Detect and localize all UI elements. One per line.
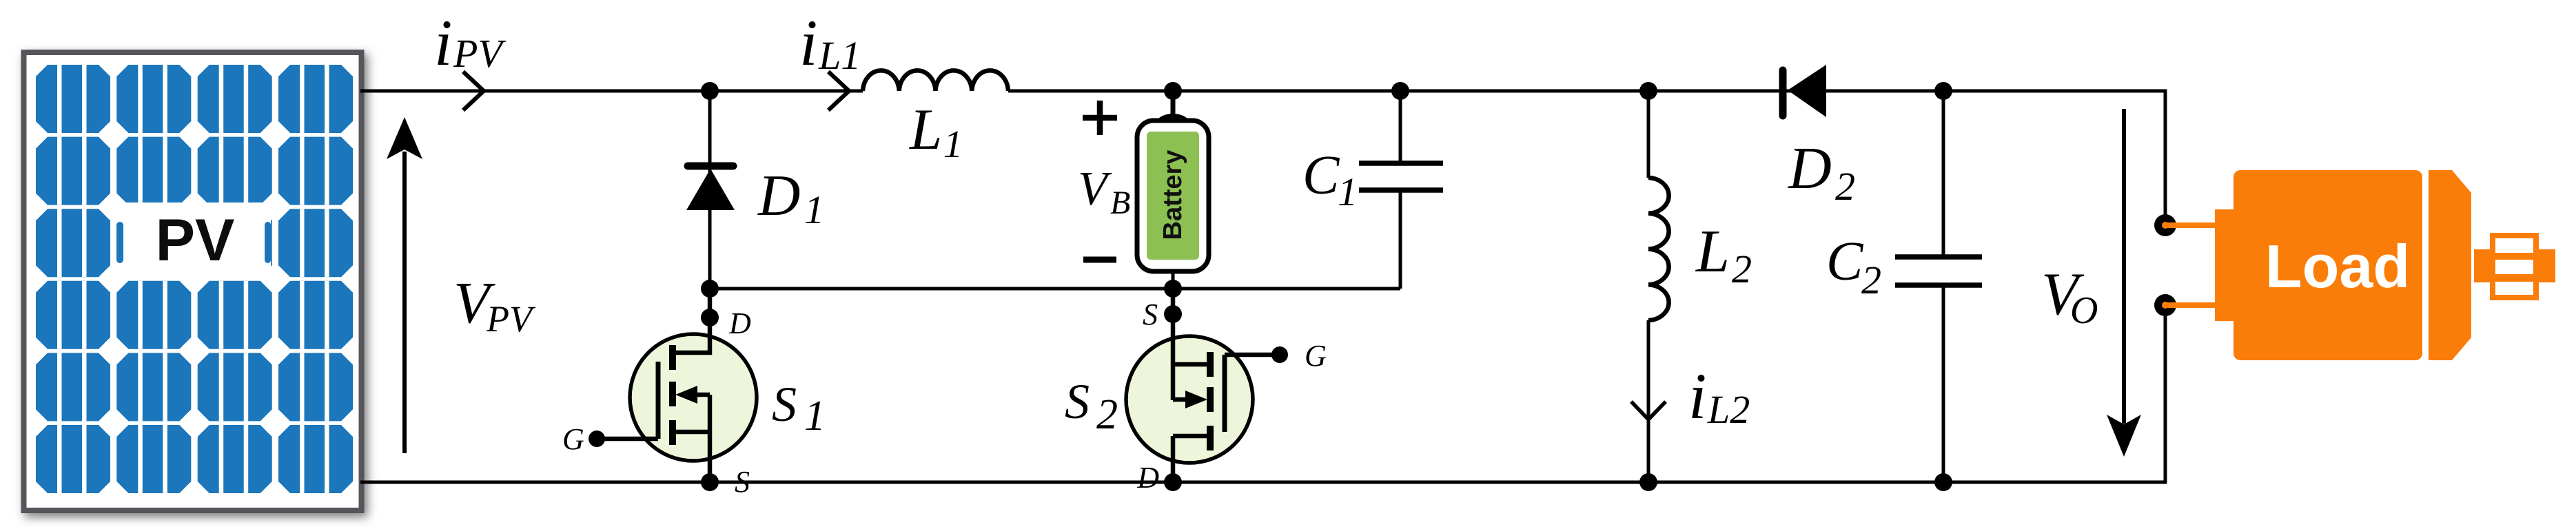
S1 body arrow xyxy=(693,393,710,397)
S2 gate terminal dot xyxy=(1271,346,1288,363)
svg-text:D: D xyxy=(1788,134,1832,201)
S1 gate terminal dot xyxy=(589,431,605,447)
battery minus sign xyxy=(1083,257,1116,263)
svg-text:Battery: Battery xyxy=(1158,150,1187,240)
S2 body circle xyxy=(1126,336,1253,463)
S2 drain lead xyxy=(1171,436,1176,482)
svg-text:2: 2 xyxy=(1732,247,1752,291)
svg-text:O: O xyxy=(2070,289,2098,332)
label C1 xyxy=(1302,145,1358,214)
wire: PV- to S1 source node (bottom rail) xyxy=(360,481,710,484)
junction node C1 top xyxy=(1391,82,1409,100)
wire: battery+ node to battery cap xyxy=(1171,91,1176,124)
wire: upper terminal to load tab (orange) xyxy=(2165,222,2216,228)
arrow VO xyxy=(2107,109,2141,457)
S1 body circle xyxy=(630,334,757,461)
wire: C2 bottom node to load lower terminal (bottom rail) xyxy=(1943,305,2165,482)
S1 gate bar xyxy=(656,362,661,439)
S1 gate lead xyxy=(597,437,658,442)
S1 drain lead xyxy=(674,289,710,353)
svg-text:D: D xyxy=(757,163,800,228)
diode D2 xyxy=(1783,65,1826,117)
transistor S1 (N-MOSFET) xyxy=(589,289,757,482)
svg-text:V: V xyxy=(1078,163,1112,216)
load motor end cap xyxy=(2429,170,2471,360)
label VO xyxy=(2041,261,2098,332)
junction node S1 source xyxy=(701,473,719,491)
wire: L2 top node to D2 cathode xyxy=(1648,90,1783,93)
svg-text:2: 2 xyxy=(1835,164,1855,209)
label D1 xyxy=(757,163,824,232)
svg-text:G: G xyxy=(562,422,584,456)
wire: L1 right end to battery+ node xyxy=(1008,90,1173,93)
wire: C1 top node to L2 top node xyxy=(1400,90,1648,93)
capacitor C2 xyxy=(1895,91,1982,482)
svg-text:D: D xyxy=(1136,461,1159,495)
svg-text:2: 2 xyxy=(1096,391,1118,438)
label iL1 xyxy=(799,6,861,79)
wire: C2 top node to load upper terminal xyxy=(1943,91,2165,225)
wire: D1 anode node to battery- node (mid rail) xyxy=(710,287,1173,291)
wire: D2 anode to C2 top node xyxy=(1783,90,1943,93)
S2 source channel bar xyxy=(1207,352,1214,377)
label D2 xyxy=(1788,134,1855,209)
wire: S2 drain node to L2 bottom node (bottom rail) xyxy=(1173,481,1648,484)
svg-text:G: G xyxy=(1305,339,1327,373)
wire: battery- to mid rail node xyxy=(1172,271,1175,289)
current arrow iL1 xyxy=(828,72,849,110)
wire: PV+ to node A (top of D1) xyxy=(360,90,710,93)
svg-text:2: 2 xyxy=(1861,258,1881,302)
junction node L2 top xyxy=(1639,82,1657,100)
battery top cap xyxy=(1155,114,1191,137)
S2 body arrow xyxy=(1173,397,1187,402)
arrow VPV xyxy=(387,117,422,453)
load (motor) xyxy=(2154,170,2555,360)
junction node S2 drain xyxy=(1164,473,1182,491)
S1 source channel bar xyxy=(669,420,676,445)
S2 source terminal dot xyxy=(1164,305,1182,323)
junction node C2 top xyxy=(1934,82,1952,100)
diode D1 xyxy=(686,166,735,210)
battery plus sign xyxy=(1083,101,1117,135)
label C2 xyxy=(1826,231,1881,302)
svg-text:PV: PV xyxy=(486,298,536,340)
S1 source lead xyxy=(708,395,713,482)
svg-text:i: i xyxy=(434,6,452,79)
svg-text:1: 1 xyxy=(804,187,824,232)
svg-text:PV: PV xyxy=(156,207,235,273)
svg-text:PV: PV xyxy=(453,31,507,76)
label L2 xyxy=(1695,218,1752,291)
S1 drain terminal dot xyxy=(701,309,719,326)
svg-text:1: 1 xyxy=(1338,169,1358,214)
load upper terminal node xyxy=(2154,214,2176,236)
svg-text:i: i xyxy=(1688,360,1706,433)
wire: battery+ node to C1 top node xyxy=(1173,90,1400,93)
svg-text:C: C xyxy=(1826,231,1864,292)
capacitor C1 xyxy=(1359,91,1443,289)
S2 gate bar xyxy=(1223,355,1227,432)
wire: node A to L1 left end xyxy=(710,90,863,93)
svg-text:1: 1 xyxy=(804,393,826,439)
transistor S2 (N-MOSFET) xyxy=(1126,289,1288,482)
inductor L2 xyxy=(1648,91,1669,482)
label S2 xyxy=(1065,374,1118,438)
PV panel xyxy=(24,52,362,510)
svg-text:L2: L2 xyxy=(1707,387,1750,432)
label iL2 xyxy=(1688,360,1750,433)
load motor body xyxy=(2233,170,2422,360)
svg-text:C: C xyxy=(1302,145,1340,206)
S1 drain channel bar xyxy=(669,345,676,370)
inductor L1 xyxy=(863,70,1008,91)
label iPV xyxy=(434,6,507,79)
svg-text:L: L xyxy=(909,97,942,162)
wire: lower terminal to load tab (orange) xyxy=(2165,302,2216,308)
S1 body channel bar xyxy=(669,382,676,406)
load lower terminal node xyxy=(2154,294,2176,316)
current arrow iPV xyxy=(463,72,484,110)
junction node L2 bottom xyxy=(1639,473,1657,491)
load motor shaft xyxy=(2474,249,2555,282)
battery green cell xyxy=(1147,132,1199,260)
battery body xyxy=(1137,121,1209,271)
junction node D1 top xyxy=(701,82,719,100)
svg-text:S: S xyxy=(1065,374,1090,429)
wire: S1 source node to S2 drain node (bottom rail) xyxy=(710,481,1173,484)
svg-text:B: B xyxy=(1110,185,1130,221)
junction node C2 bottom xyxy=(1934,473,1952,491)
S2 drain channel bar xyxy=(1207,426,1214,450)
label VPV xyxy=(453,269,536,340)
D1 branch wire xyxy=(708,91,712,289)
svg-text:D: D xyxy=(728,307,751,340)
junction node battery top xyxy=(1164,82,1182,100)
svg-text:Load: Load xyxy=(2265,232,2410,300)
S2 source lead xyxy=(1171,289,1176,400)
label S1 xyxy=(772,377,826,439)
svg-text:1: 1 xyxy=(943,123,963,166)
battery B1 xyxy=(1137,91,1209,289)
label L1 xyxy=(909,97,963,166)
wire: battery- node to C1 bottom (mid rail) xyxy=(1173,287,1400,291)
label VB xyxy=(1078,163,1130,221)
S2 body channel bar xyxy=(1207,387,1214,412)
junction node D1 bottom xyxy=(701,280,719,298)
S2 gate lead xyxy=(1225,353,1278,357)
load shaft coupler xyxy=(2493,236,2536,298)
svg-text:i: i xyxy=(799,6,817,79)
wire: L2 bottom node to C2 bottom node (bottom rail) xyxy=(1648,481,1943,484)
junction node battery bottom xyxy=(1164,280,1182,298)
svg-text:L1: L1 xyxy=(818,33,861,78)
svg-text:S: S xyxy=(1143,298,1158,331)
svg-text:S: S xyxy=(735,465,750,499)
svg-text:S: S xyxy=(772,377,797,432)
load terminal tab xyxy=(2215,209,2237,321)
current arrow iL2 xyxy=(1631,402,1666,419)
svg-text:L: L xyxy=(1695,218,1730,285)
